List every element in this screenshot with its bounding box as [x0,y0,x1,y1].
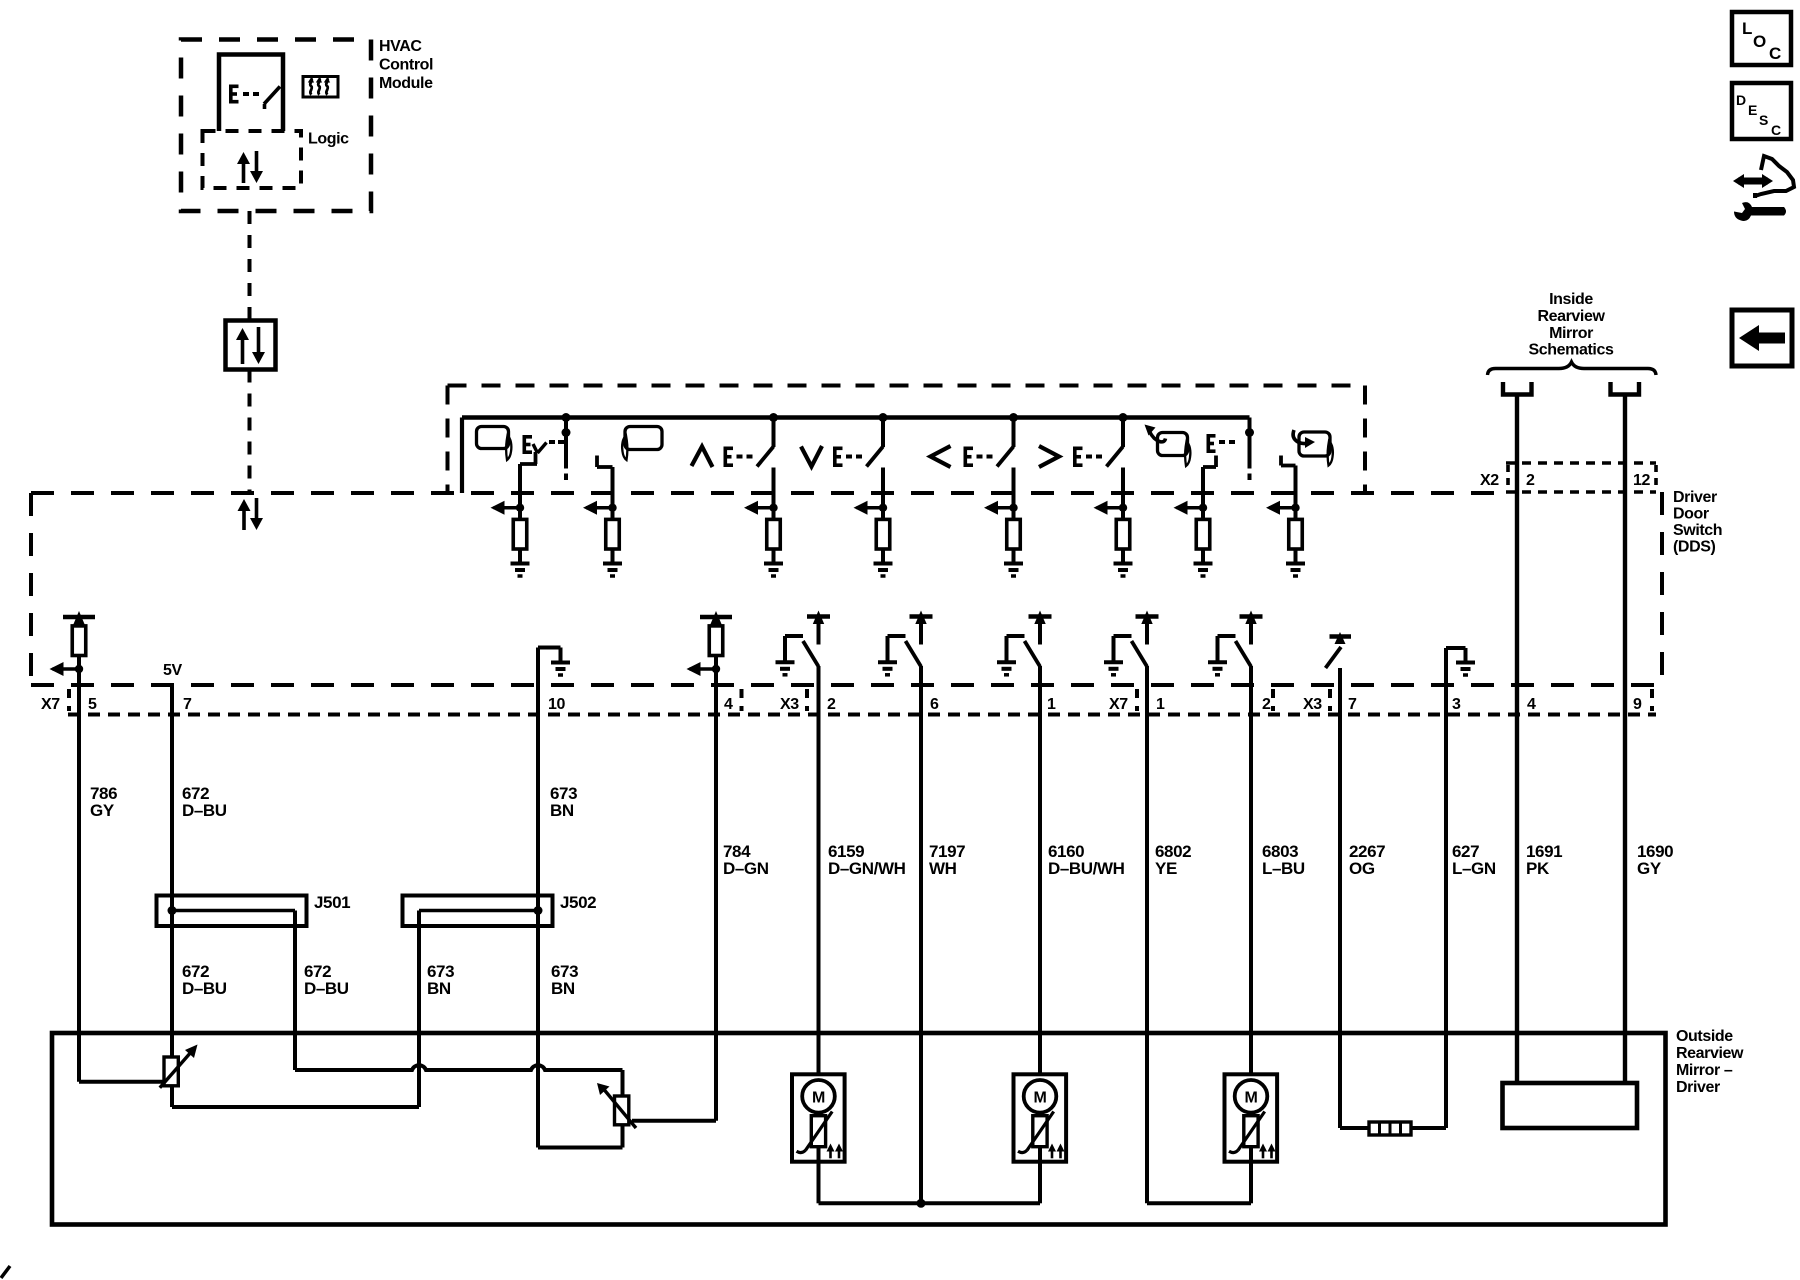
label 7197 WH [929,842,965,878]
svg-text:X7: X7 [41,696,60,713]
svg-text:E: E [1748,102,1757,118]
label 6159 D–GN/WH [828,842,906,878]
resistor right col [1116,519,1130,549]
ground left col [1004,564,1023,577]
wire 673 BN lower left [417,911,421,1108]
svg-text:Inside: Inside [1549,291,1593,308]
label 673 BN lower right [551,962,578,998]
Logic label [308,131,349,148]
wire down col [881,468,885,520]
navigation arrows-wrench icon [1733,156,1794,221]
svg-text:C: C [1769,44,1781,63]
label 784 D-GN [723,842,769,878]
svg-text:X3: X3 [780,696,799,713]
wire pin5 to pot1 [79,1080,164,1084]
resistor col1 [513,519,527,549]
label 6803 L–BU [1262,842,1305,878]
svg-text:L: L [1742,19,1752,38]
terminal IRM pin12 [1611,382,1640,395]
svg-text:Driver: Driver [1676,1079,1720,1096]
svg-text:10: 10 [548,696,565,713]
svg-text:7: 7 [1348,696,1357,713]
svg-text:D–BU: D–BU [182,801,227,820]
svg-text:Door: Door [1673,506,1709,523]
svg-text:OG: OG [1349,859,1375,878]
svg-text:6: 6 [930,696,939,713]
svg-text:1: 1 [1156,696,1165,713]
logic up/down arrows [237,151,263,183]
wire 6802 YE lower [1145,1074,1149,1203]
DDS label [1673,489,1722,556]
connector pin labels [41,689,1652,713]
svg-text:M: M [1034,1090,1047,1107]
connector X2 box [1506,463,1656,492]
arrow down col [854,501,888,515]
Logic box [203,131,302,188]
Outside Rearview Mirror box [52,1033,1666,1225]
svg-text:Driver: Driver [1673,489,1717,506]
position sensor pot2 [597,1083,636,1128]
svg-text:YE: YE [1155,859,1177,878]
svg-text:D–GN/WH: D–GN/WH [828,859,906,878]
wire 2267 OG corner [1340,1126,1369,1130]
arrow col7 [1174,501,1208,515]
wire pot2 lower [621,1125,625,1148]
ORM label [1676,1028,1744,1096]
label 672 D-BU lower right [304,962,349,998]
HVAC switch symbol E [229,85,280,110]
wire 673 BN lower right [536,911,540,1148]
arrow right col [1094,501,1128,515]
ground pin10 internal [538,648,570,686]
svg-text:4: 4 [724,696,733,713]
arrow left col [984,501,1018,515]
connector row top border [31,683,1662,687]
svg-text:D–BU: D–BU [182,979,227,998]
wire 6802 YE [1145,666,1149,1074]
ground right col [1114,564,1133,577]
svg-text:4: 4 [1527,696,1536,713]
ground up col [764,564,783,577]
svg-text:2: 2 [1526,472,1535,489]
svg-text:L–BU: L–BU [1262,859,1305,878]
svg-text:2: 2 [1262,696,1271,713]
wire left col [1012,468,1016,520]
DESC button [1732,83,1791,139]
svg-text:PK: PK [1526,859,1550,878]
wire 6159 D–GN/WH [817,666,821,1074]
svg-text:HVAC: HVAC [379,38,422,55]
inside mirror element [1503,1083,1638,1128]
switch pack box [448,386,1366,494]
svg-text:M: M [1245,1090,1258,1107]
wire col1 lower [518,549,522,564]
mirror heater element [1369,1122,1411,1135]
svg-text:GY: GY [90,801,115,820]
svg-text:(DDS): (DDS) [1673,539,1716,556]
up switch [692,413,779,467]
arrow pin4 [687,656,721,677]
5V label [163,662,182,679]
dashed control link upper [248,211,252,321]
select switch left [520,435,564,464]
arrow col1 [491,501,525,515]
back-arrow button [1732,310,1792,366]
X2 pin 12 [1633,472,1650,489]
DDS right edge [1660,492,1664,685]
motor M3 fold [1225,1074,1278,1161]
ground down col [874,564,893,577]
ground pin3 internal [1446,648,1475,685]
wire 1691 PK [1515,395,1519,1084]
svg-text:5: 5 [88,696,97,713]
HVAC internal switch box [219,55,283,132]
mirror-left icon [477,427,512,461]
svg-text:Logic: Logic [308,131,349,148]
fold-in mirror icon [1145,425,1191,467]
wire pot1 to lineB [170,1086,174,1107]
svg-text:D–BU: D–BU [304,979,349,998]
arrow col8 [1266,501,1300,515]
svg-text:Rearview: Rearview [1676,1045,1744,1062]
wire lineA corner down [621,1070,625,1096]
resistor down col [876,519,890,549]
svg-text:Rearview: Rearview [1537,308,1605,325]
fold switch X3-7 [1326,632,1352,668]
bus wire [462,418,1250,494]
svg-text:Mirror: Mirror [1549,325,1593,342]
wire M1 lower [817,1147,821,1204]
svg-text:C: C [1771,122,1781,138]
svg-text:5V: 5V [163,662,182,679]
wire 6803 L–BU [1249,666,1253,1074]
ground col2 [603,564,622,577]
svg-text:Outside: Outside [1676,1028,1733,1045]
svg-text:X7: X7 [1109,696,1128,713]
label 672 D-BU lower left [182,962,227,998]
svg-text:Control: Control [379,57,433,74]
switch X7-1 [1104,611,1159,675]
svg-text:D–GN: D–GN [723,859,769,878]
line B wire [172,1105,419,1109]
svg-text:Module: Module [379,75,433,92]
wire 7197 WH [919,666,923,1074]
LOC button [1732,12,1791,65]
wire col2 lower [611,549,615,564]
connector row bottom border [68,713,1656,717]
resistor col8 [1289,519,1303,549]
signal repeater box [226,321,276,370]
label 2267 OG [1349,842,1385,878]
select switch right contact [597,456,613,468]
svg-text:2: 2 [827,696,836,713]
switch X7-2 [1208,611,1263,675]
svg-text:Switch: Switch [1673,522,1722,539]
switch X3-6 [878,611,933,675]
ground col8 [1286,564,1305,577]
wire 786 GY [77,669,81,1082]
wire 6160 D–BU/WH [1038,666,1042,1074]
svg-text:Schematics: Schematics [1529,342,1614,359]
page mark [1,1266,10,1278]
svg-text:GY: GY [1637,859,1662,878]
wire col1 [518,464,522,520]
label 786 GY [90,784,117,820]
svg-text:12: 12 [1633,472,1650,489]
brace [1488,362,1657,375]
svg-text:S: S [1759,112,1768,128]
wire 672 D-BU lower right [293,911,297,1071]
resistor pin5 [72,626,86,656]
wire pin10 bottom link [538,1146,623,1150]
J502 label [560,893,596,912]
fold-out switch contact [1281,456,1296,466]
switch X3-2 [776,611,831,675]
X2 pin 2 [1526,472,1535,489]
wire 7197 WH lower [919,1074,923,1203]
wire 672 D-BU upper [170,685,174,911]
left switch [931,413,1019,467]
svg-text:BN: BN [427,979,451,998]
splice J501 [157,896,307,927]
motor M1 left-right [792,1074,845,1161]
svg-text:O: O [1753,32,1766,51]
resistor left col [1007,519,1021,549]
wire heater to pin3 [1411,1126,1446,1130]
resistor up col [767,519,781,549]
terminal IRM pin2 [1503,382,1532,395]
svg-text:M: M [812,1090,825,1107]
svg-text:BN: BN [551,979,575,998]
ground col1 [511,564,530,577]
svg-text:Mirror –: Mirror – [1676,1062,1733,1079]
svg-text:D: D [1736,92,1746,108]
label 1690 GY [1637,842,1673,878]
label 1691 PK [1526,842,1562,878]
svg-text:X2: X2 [1480,472,1499,489]
svg-text:WH: WH [929,859,957,878]
power feed pin4 [700,611,732,625]
line A wire with crossovers [295,1065,623,1070]
svg-text:9: 9 [1633,696,1642,713]
motor M2 up-down [1014,1074,1067,1161]
J501 label [314,893,350,912]
svg-text:X3: X3 [1303,696,1322,713]
wire col2 [611,467,615,520]
DDS left edge [29,493,33,685]
label 672 D-BU upper [182,784,227,820]
resistor col2 [606,519,620,549]
label 627 L-GN [1452,842,1496,878]
svg-text:D–BU/WH: D–BU/WH [1048,859,1125,878]
fold-out mirror icon [1293,430,1333,466]
label 673 BN lower left [427,962,454,998]
svg-text:1: 1 [1047,696,1056,713]
HVAC Control Module label [379,38,433,92]
wire up col [772,468,776,520]
dashed control link lower [248,370,252,492]
resistor pin4 [709,626,723,656]
Inside Rearview Mirror Schematics label [1529,291,1614,359]
svg-text:BN: BN [550,801,574,820]
HVAC Control Module box [181,40,371,212]
arrow col2 [583,501,617,515]
wire 1690 GY [1623,395,1627,1084]
splice J502 [403,896,553,927]
X2 label [1480,472,1499,489]
arrow up col [744,501,778,515]
wire 2267 OG [1338,668,1342,1128]
arrow pin5 [50,656,84,677]
wire pot2 wiper to pin4 [632,1119,716,1123]
down switch [801,413,888,467]
svg-text:3: 3 [1452,696,1461,713]
wire M3 lower [1147,1147,1251,1204]
wire right col [1121,468,1125,520]
svg-text:J501: J501 [314,893,350,912]
power feed pin5 [63,611,95,625]
switch X3-1 [997,611,1052,675]
node select link left [562,413,571,480]
mirror-right icon [622,427,662,461]
label 6802 YE [1155,842,1191,878]
motor common link [819,1199,1041,1208]
fold-in switch [1203,434,1235,467]
wire 784 D-GN [714,669,718,1121]
control link arrows at DDS [238,498,264,530]
Driver Door Switch box top edge [31,491,1500,495]
resistor col7 [1196,519,1210,549]
wire M2 lower [1038,1147,1042,1204]
svg-text:7: 7 [183,696,192,713]
label 673 BN upper [550,784,577,820]
svg-text:J502: J502 [560,893,596,912]
node select link right [1245,418,1254,481]
label 6160 D–BU/WH [1048,842,1125,878]
right switch [1039,413,1128,467]
wire 672 D-BU lower left [170,911,174,1058]
heated mirror indicator [303,77,338,98]
wire 627 L-GN [1444,685,1448,1128]
position sensor pot1 [160,1045,198,1088]
wire 673 BN upper [536,685,540,911]
svg-text:L–GN: L–GN [1452,859,1496,878]
ground col7 [1194,564,1213,577]
wire col8 [1294,466,1298,520]
wire col7 [1201,467,1205,520]
